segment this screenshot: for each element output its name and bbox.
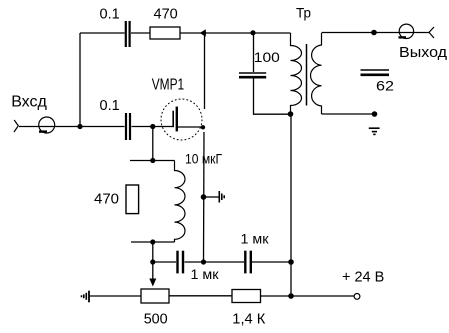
wire secondary top to output	[322, 32, 430, 34]
wire cap row left	[153, 261, 176, 263]
node cap row left junction	[150, 259, 155, 264]
resistor R4 1,4К	[232, 290, 261, 303]
node cap row mid junction	[201, 259, 206, 264]
wire resistor to +24V terminal	[261, 295, 355, 297]
wire ground to potentiometer	[90, 295, 141, 297]
svg-text:+ 24 В: + 24 В	[342, 270, 384, 286]
wire top rail to transformer	[180, 32, 291, 34]
resistor R1 470 (top)	[150, 27, 180, 39]
input connector XS1	[14, 117, 55, 133]
wire cap row middle	[185, 261, 245, 263]
resistor R2 470 (floating)	[126, 185, 139, 214]
output connector XS2	[399, 24, 435, 38]
svg-text:100: 100	[254, 49, 280, 65]
wire cap row right	[252, 261, 291, 263]
transformer Tr secondary winding	[311, 33, 322, 114]
wire input horizontal	[19, 126, 125, 128]
capacitor C1 0.1 (top)	[126, 21, 130, 47]
svg-text:Вхсд: Вхсд	[11, 94, 47, 111]
potentiometer R3 500	[141, 289, 169, 303]
transistor VMP1	[161, 99, 205, 140]
node cap row right junction	[288, 259, 294, 265]
svg-text:62: 62	[376, 78, 394, 94]
terminal +24V	[354, 294, 360, 300]
wire 100-cap branch top	[253, 33, 255, 72]
node coil top junction	[150, 158, 155, 163]
capacitor C2 0.1 (gate)	[126, 113, 130, 140]
wire coil top stub	[130, 160, 175, 162]
svg-text:470: 470	[94, 192, 119, 208]
capacitor C4 1мк (left)	[178, 251, 184, 274]
ground (down, right side)	[369, 128, 380, 134]
wire potentiometer to resistor	[170, 295, 233, 297]
svg-text:10 мкГ: 10 мкГ	[185, 151, 222, 167]
transformer core	[306, 44, 308, 106]
wire secondary bottom	[322, 113, 375, 115]
svg-text:470: 470	[154, 7, 178, 23]
wiper arrow to potentiometer	[149, 262, 156, 287]
node drain-ground junction	[201, 194, 207, 200]
wire gate cap to transistor	[132, 126, 174, 128]
wire vertical input to top rail	[79, 33, 81, 127]
svg-text:0.1: 0.1	[100, 98, 120, 114]
node drain junction top	[200, 29, 206, 36]
transformer Tr primary winding	[291, 33, 302, 114]
wire coil bottom stub	[131, 241, 175, 243]
svg-text:0.1: 0.1	[100, 7, 120, 23]
capacitor C6 62 (floating)	[361, 70, 390, 75]
wire to right ground stub	[204, 196, 219, 198]
node bottom rail junction	[288, 293, 294, 299]
node 100-cap junction	[250, 30, 255, 35]
inductor L1 (coil)	[175, 161, 186, 243]
svg-text:1 мк: 1 мк	[241, 231, 270, 247]
node input junction	[77, 124, 82, 129]
svg-text:1,4 К: 1,4 К	[232, 312, 266, 328]
wire top rail segment 1	[80, 32, 125, 34]
wire drain vertical lower	[203, 132, 206, 262]
node output junction	[371, 30, 377, 36]
capacitor C3 100	[239, 73, 266, 77]
svg-text:Тр: Тр	[296, 6, 311, 21]
node gate junction	[150, 124, 155, 129]
svg-text:500: 500	[144, 312, 168, 328]
wire down to cap row	[152, 242, 154, 262]
wire 100-cap branch bottom	[254, 79, 291, 115]
node coil bottom junction	[150, 239, 155, 244]
svg-text:Выход: Выход	[399, 45, 448, 61]
svg-text:VMP1: VMP1	[152, 77, 185, 94]
wire gate down to coil	[152, 127, 154, 161]
svg-text:1 мк: 1 мк	[191, 266, 220, 282]
capacitor C5 1мк (right)	[245, 251, 251, 274]
node transformer bottom left junction	[288, 111, 294, 117]
node secondary bottom end	[372, 111, 378, 117]
wire long vertical to bottom rail	[290, 114, 292, 296]
ground (right-pointing)	[219, 191, 224, 203]
ground (left-pointing, bottom left)	[82, 291, 90, 303]
wire	[131, 32, 150, 34]
wire drain vertical upper	[204, 33, 206, 109]
